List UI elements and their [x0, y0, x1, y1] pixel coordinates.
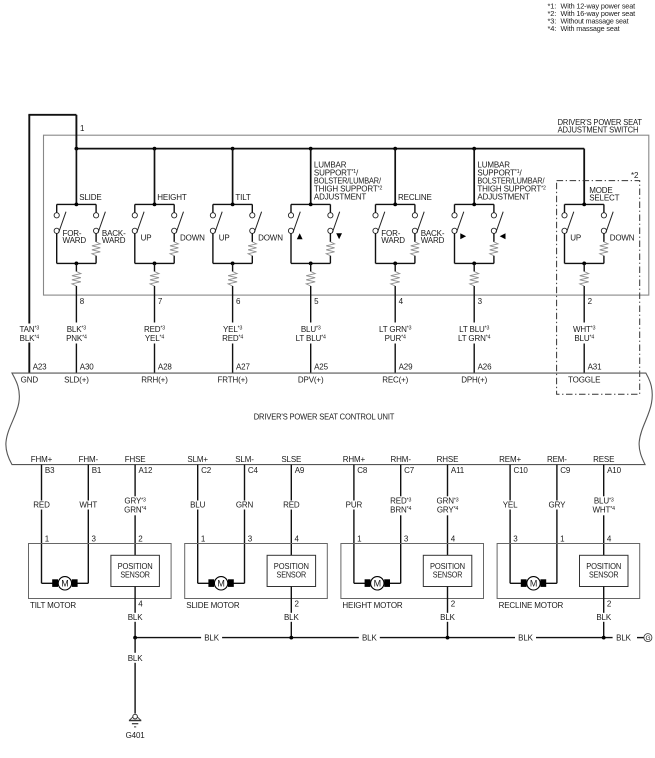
- svg-text:*4:: *4:: [548, 24, 557, 33]
- sensor pin 2: [295, 600, 300, 609]
- wire pin 5 to connector A25: [310, 286, 312, 373]
- label BLK: [128, 654, 143, 663]
- junction node col 5 on bus: [309, 147, 313, 151]
- pin 1 label: [80, 124, 85, 133]
- svg-text:WARD: WARD: [63, 236, 87, 245]
- svg-text:SLIDE: SLIDE: [79, 193, 101, 202]
- junction node col 6 on bus: [231, 147, 235, 151]
- wire colour label: [498, 501, 522, 510]
- label RECLINE MOTOR: [499, 601, 564, 610]
- wire FHM+ (B3): [41, 465, 43, 584]
- label BLK: [204, 633, 219, 642]
- connector id C4: [248, 466, 259, 475]
- ground terminal G: [644, 634, 652, 643]
- svg-text:2: 2: [607, 600, 612, 609]
- label FHM+: [31, 455, 53, 464]
- junction tilt sensor on ground bus: [133, 636, 137, 640]
- svg-text:A25: A25: [314, 362, 328, 371]
- connector id A12: [139, 466, 153, 475]
- wire colour label: [342, 501, 366, 510]
- svg-text:SLSE: SLSE: [281, 455, 301, 464]
- svg-text:6: 6: [236, 297, 241, 306]
- svg-text:A10: A10: [607, 466, 621, 475]
- resistor in 6 right branch: [248, 242, 256, 256]
- wire bus to switch 6: [232, 149, 234, 205]
- svg-text:G401: G401: [126, 731, 146, 740]
- svg-text:RED: RED: [33, 501, 50, 510]
- svg-text:M: M: [374, 579, 381, 589]
- wire colour label: [233, 501, 257, 510]
- svg-text:UP: UP: [141, 234, 152, 243]
- svg-text:UP: UP: [219, 234, 230, 243]
- driver's power seat adjustment switch box: [44, 135, 649, 295]
- label RHSE: [437, 455, 459, 464]
- wire RHSE (A11): [447, 465, 449, 556]
- wire: A23/GND feed to switch pin 1: [28, 115, 76, 373]
- svg-text:TILT MOTOR: TILT MOTOR: [30, 601, 76, 610]
- wire bus to switch 8: [75, 149, 77, 205]
- sensor pin 4: [138, 600, 143, 609]
- pin 1: [560, 535, 565, 544]
- note list (seat variants): [548, 2, 637, 33]
- wire sensor to ground bus: [603, 587, 605, 638]
- svg-text:C4: C4: [248, 466, 259, 475]
- wire switch 3 to resistor: [473, 263, 475, 271]
- svg-text:A28: A28: [158, 362, 172, 371]
- svg-text:SELECT: SELECT: [589, 194, 619, 203]
- height motor box: [341, 544, 484, 599]
- svg-text:1: 1: [45, 535, 50, 544]
- wire pin 7 to connector A28: [154, 286, 156, 373]
- svg-text:SENSOR: SENSOR: [433, 571, 463, 580]
- wire label RED*3/YEL*4: [144, 325, 165, 343]
- switch group pin 5: [288, 203, 339, 266]
- label BLK: [362, 633, 377, 642]
- pin 4: [295, 535, 300, 544]
- switch group pin 3: [452, 203, 503, 266]
- wire SLM+ (C2): [197, 465, 199, 584]
- svg-text:SENSOR: SENSOR: [277, 571, 307, 580]
- motor M of SLIDE MOTOR: [198, 577, 245, 590]
- wire FHSE (A12): [134, 465, 136, 556]
- svg-text:*2: *2: [631, 171, 639, 180]
- control unit terminal label TOGGLE: [568, 376, 600, 385]
- ground G401: [129, 714, 141, 727]
- svg-text:4: 4: [138, 600, 143, 609]
- wire pin 4 to connector A29: [394, 286, 396, 373]
- svg-text:2: 2: [451, 600, 456, 609]
- series resistor col 7: [150, 272, 159, 287]
- junction node col 3 on bus: [472, 147, 476, 151]
- label DRIVER'S POWER SEAT CONTROL UNIT: [254, 412, 395, 421]
- pin number 4: [399, 297, 404, 306]
- wire label YEL*3/RED*4: [222, 325, 243, 343]
- label DOWN: [180, 234, 205, 243]
- svg-text:TOGGLE: TOGGLE: [568, 376, 600, 385]
- sensor pin 2: [451, 600, 456, 609]
- svg-text:REC(+): REC(+): [382, 376, 408, 385]
- wire RESE (A10): [603, 465, 605, 556]
- resistor in 4 right branch: [411, 242, 419, 256]
- connector label A29: [399, 362, 413, 371]
- svg-text:RRH(+): RRH(+): [141, 376, 168, 385]
- junction node col 4 on bus: [393, 147, 397, 151]
- wire FHM- (B1): [87, 465, 89, 584]
- svg-text:GND: GND: [21, 376, 39, 385]
- wire REM- (C9): [556, 465, 558, 584]
- svg-text:RESE: RESE: [593, 455, 614, 464]
- svg-text:3: 3: [513, 535, 518, 544]
- svg-text:G: G: [645, 635, 650, 642]
- wire SLSE (A9): [290, 465, 292, 556]
- svg-text:B3: B3: [45, 466, 55, 475]
- resistor in 3 right branch: [490, 242, 498, 256]
- svg-text:RED*3: RED*3: [144, 325, 165, 334]
- pin 3: [92, 535, 97, 544]
- label RHM+: [343, 455, 366, 464]
- wire colour label: [545, 501, 569, 510]
- svg-text:LT BLU*3: LT BLU*3: [459, 325, 489, 334]
- wire label BLK: [593, 613, 615, 622]
- label UP: [141, 234, 152, 243]
- svg-text:BLK*3: BLK*3: [67, 325, 87, 334]
- label HEIGHT: [157, 193, 187, 202]
- svg-text:A27: A27: [236, 362, 250, 371]
- wire sensor to ground bus: [134, 587, 136, 638]
- pin 4: [451, 535, 456, 544]
- pin number 8: [80, 297, 85, 306]
- control unit terminal label SLD(+): [64, 376, 89, 385]
- svg-text:PNK*4: PNK*4: [66, 334, 87, 343]
- pin 1: [357, 535, 362, 544]
- wire colour label: [279, 501, 303, 510]
- switch group pin 2: [562, 203, 613, 266]
- position sensor of HEIGHT MOTOR: [423, 555, 472, 586]
- wire switch 8 to resistor: [75, 263, 77, 271]
- svg-text:DOWN: DOWN: [258, 234, 283, 243]
- svg-text:WARD: WARD: [421, 236, 445, 245]
- label BACK- WARD: [102, 229, 126, 245]
- wire label TAN*3/BLK*4 (GND wire): [16, 324, 42, 343]
- connector id A11: [451, 466, 465, 475]
- svg-text:TILT: TILT: [235, 193, 251, 202]
- wire colour label: [386, 496, 416, 515]
- slide motor box: [185, 544, 328, 599]
- svg-text:BLK: BLK: [128, 654, 143, 663]
- label FHM-: [79, 455, 99, 464]
- series resistor col 6: [228, 272, 237, 287]
- svg-text:8: 8: [80, 297, 85, 306]
- label FHSE: [125, 455, 146, 464]
- wire label BLK: [280, 613, 302, 622]
- ground bus wire (BLK): [135, 633, 644, 643]
- svg-text:A29: A29: [399, 362, 413, 371]
- svg-text:ADJUSTMENT: ADJUSTMENT: [314, 193, 367, 202]
- svg-text:5: 5: [314, 297, 319, 306]
- svg-text:3: 3: [404, 535, 409, 544]
- junction slide sensor on ground bus: [289, 636, 293, 640]
- svg-text:A9: A9: [295, 466, 305, 475]
- wire label BLK: [124, 613, 146, 622]
- wire switch 6 to resistor: [232, 263, 234, 271]
- svg-text:DRIVER'S POWER SEAT CONTROL UN: DRIVER'S POWER SEAT CONTROL UNIT: [254, 412, 395, 421]
- wire pin 2 to connector A31: [583, 286, 585, 373]
- pin number 6: [236, 297, 241, 306]
- svg-text:YEL*3: YEL*3: [223, 325, 243, 334]
- label SLM-: [235, 455, 254, 464]
- series resistor col 2: [580, 272, 589, 287]
- svg-text:2: 2: [295, 600, 300, 609]
- wire label BLU*3/LT BLU*4: [296, 325, 326, 343]
- svg-text:LT GRN*3: LT GRN*3: [379, 325, 412, 334]
- svg-text:3: 3: [478, 297, 483, 306]
- svg-text:WHT: WHT: [79, 501, 97, 510]
- label SLM+: [187, 455, 208, 464]
- wire ground bus to G401: [125, 638, 146, 714]
- svg-text:SLIDE MOTOR: SLIDE MOTOR: [186, 601, 240, 610]
- connector id A9: [295, 466, 305, 475]
- svg-text:C8: C8: [357, 466, 368, 475]
- wire pin 8 to connector A30: [75, 286, 77, 373]
- wire RHM+ (C8): [353, 465, 355, 584]
- pin 3: [404, 535, 409, 544]
- driver's power seat control unit outline (torn edges): [6, 373, 652, 465]
- svg-text:BLK: BLK: [284, 613, 299, 622]
- svg-text:BLK: BLK: [440, 613, 455, 622]
- label: DRIVER'S POWER SEAT ADJUSTMENT SWITCH: [558, 118, 642, 134]
- svg-text:BLU*3: BLU*3: [301, 325, 321, 334]
- svg-text:BLU: BLU: [190, 501, 205, 510]
- control unit terminal label DPH(+): [461, 376, 487, 385]
- connector label A27: [236, 362, 250, 371]
- svg-text:REM-: REM-: [547, 455, 567, 464]
- label FOR- WARD: [381, 229, 405, 245]
- svg-text:DOWN: DOWN: [180, 234, 205, 243]
- label *2: [631, 171, 639, 180]
- wire sensor to ground bus: [290, 587, 292, 638]
- svg-text:PUR: PUR: [346, 501, 363, 510]
- switch group pin 6: [210, 203, 261, 266]
- recline motor box: [497, 544, 640, 599]
- svg-text:RED*4: RED*4: [222, 334, 243, 343]
- series resistor col 5: [306, 272, 315, 287]
- svg-text:2: 2: [138, 535, 143, 544]
- control unit terminal label DPV(+): [298, 376, 324, 385]
- wire colour label: [76, 501, 100, 510]
- wire bus to switch 3: [473, 149, 475, 205]
- svg-text:1: 1: [560, 535, 565, 544]
- svg-text:3: 3: [92, 535, 97, 544]
- wire colour label: [120, 496, 150, 515]
- svg-text:LT BLU*4: LT BLU*4: [296, 334, 326, 343]
- svg-text:WARD: WARD: [381, 236, 405, 245]
- svg-text:A23: A23: [33, 362, 47, 371]
- svg-text:FHSE: FHSE: [125, 455, 146, 464]
- series resistor col 3: [470, 272, 479, 287]
- control unit terminal label FRTH(+): [218, 376, 249, 385]
- label ▲: [297, 233, 303, 239]
- resistor in 2 right branch: [600, 242, 608, 256]
- svg-text:RED: RED: [283, 501, 300, 510]
- svg-text:DPV(+): DPV(+): [298, 376, 324, 385]
- wire colour label: [30, 501, 54, 510]
- connector id C8: [357, 466, 368, 475]
- label HEIGHT MOTOR: [342, 601, 403, 610]
- wire sensor to ground bus: [447, 587, 449, 638]
- svg-text:YEL: YEL: [503, 501, 518, 510]
- wire RHM- (C7): [400, 465, 402, 584]
- label G401: [126, 731, 146, 740]
- motor M of RECLINE MOTOR: [510, 577, 557, 590]
- svg-text:A12: A12: [139, 466, 153, 475]
- junction node col 7 on bus: [153, 147, 157, 151]
- label FOR- WARD: [63, 229, 87, 245]
- label REM-: [547, 455, 567, 464]
- position sensor of RECLINE MOTOR: [580, 555, 629, 586]
- position sensor of TILT MOTOR: [111, 555, 159, 586]
- svg-text:SENSOR: SENSOR: [120, 571, 150, 580]
- pin number 7: [158, 297, 163, 306]
- wire colour label: [433, 496, 463, 515]
- switch group pin 8: [54, 203, 105, 266]
- svg-text:1: 1: [357, 535, 362, 544]
- svg-text:RECLINE MOTOR: RECLINE MOTOR: [499, 601, 564, 610]
- junction recline sensor on ground bus: [602, 636, 606, 640]
- label UP: [219, 234, 230, 243]
- svg-text:RHSE: RHSE: [437, 455, 459, 464]
- svg-text:A26: A26: [478, 362, 492, 371]
- connector id C9: [560, 466, 571, 475]
- label DOWN: [258, 234, 283, 243]
- label SLSE: [281, 455, 301, 464]
- label ▶: [460, 233, 466, 239]
- svg-text:BLU*4: BLU*4: [574, 334, 594, 343]
- svg-text:C9: C9: [560, 466, 571, 475]
- wire label LT GRN*3/PUR*4: [379, 325, 412, 343]
- svg-text:LT GRN*4: LT GRN*4: [458, 334, 491, 343]
- svg-text:FHM-: FHM-: [79, 455, 99, 464]
- junction node col 8 on bus: [75, 147, 79, 151]
- wire switch 4 to resistor: [394, 263, 396, 271]
- svg-text:1: 1: [201, 535, 206, 544]
- label ▼: [336, 233, 342, 239]
- wire colour label: [589, 496, 619, 515]
- label REM+: [499, 455, 521, 464]
- svg-text:SENSOR: SENSOR: [589, 571, 619, 580]
- svg-text:7: 7: [158, 297, 163, 306]
- label UP: [570, 234, 581, 243]
- position sensor of SLIDE MOTOR: [267, 555, 316, 586]
- svg-text:C2: C2: [201, 466, 212, 475]
- connector label A31: [588, 362, 602, 371]
- svg-text:A31: A31: [588, 362, 602, 371]
- svg-text:BLK: BLK: [616, 633, 631, 642]
- wire bus to switch 5: [310, 149, 312, 205]
- wire pin 3 to connector A26: [473, 286, 475, 373]
- svg-text:1: 1: [80, 124, 85, 133]
- motor M of TILT MOTOR: [42, 577, 89, 590]
- svg-text:A30: A30: [80, 362, 94, 371]
- pin number 2: [588, 297, 593, 306]
- junction height sensor on ground bus: [446, 636, 450, 640]
- motor M of HEIGHT MOTOR: [354, 577, 401, 590]
- svg-text:UP: UP: [570, 234, 581, 243]
- svg-text:4: 4: [607, 535, 612, 544]
- svg-text:RECLINE: RECLINE: [398, 193, 432, 202]
- svg-text:2: 2: [588, 297, 593, 306]
- sensor pin 2: [607, 600, 612, 609]
- svg-text:BLK: BLK: [362, 633, 377, 642]
- wire bus to switch 7: [154, 149, 156, 205]
- connector id C7: [404, 466, 415, 475]
- resistor in 8 right branch: [92, 242, 100, 256]
- svg-text:BLK: BLK: [596, 613, 611, 622]
- svg-text:WARD: WARD: [102, 236, 126, 245]
- label MODE SELECT: [589, 186, 619, 203]
- svg-text:REM+: REM+: [499, 455, 521, 464]
- wire REM+ (C10): [509, 465, 511, 584]
- wire label WHT*3/BLU*4: [573, 325, 596, 343]
- svg-text:4: 4: [295, 535, 300, 544]
- bus wire across switch columns: [76, 149, 584, 205]
- svg-text:HEIGHT MOTOR: HEIGHT MOTOR: [342, 601, 403, 610]
- svg-text:FHM+: FHM+: [31, 455, 53, 464]
- svg-text:SLM+: SLM+: [187, 455, 208, 464]
- svg-text:PUR*4: PUR*4: [385, 334, 406, 343]
- pin number 5: [314, 297, 319, 306]
- wire switch 7 to resistor: [154, 263, 156, 271]
- svg-text:YEL*4: YEL*4: [145, 334, 165, 343]
- pin 1: [45, 535, 50, 544]
- control unit terminal label GND: [21, 376, 39, 385]
- connector id C2: [201, 466, 212, 475]
- label SLIDE: [79, 193, 101, 202]
- connector label A30: [80, 362, 94, 371]
- control unit terminal label REC(+): [382, 376, 408, 385]
- connector id C10: [514, 466, 529, 475]
- label LUMBAR SUPPORT/BOLSTER/LUMBAR/THIGH SUPPORT ADJUSTMENT: [314, 160, 383, 201]
- svg-text:C7: C7: [404, 466, 415, 475]
- pin number 3: [478, 297, 483, 306]
- svg-text:SLD(+): SLD(+): [64, 376, 89, 385]
- svg-text:ADJUSTMENT SWITCH: ADJUSTMENT SWITCH: [558, 126, 639, 135]
- wire pin 6 to connector A27: [232, 286, 234, 373]
- svg-text:With massage seat: With massage seat: [561, 24, 621, 33]
- option box *2 (16-way) dash-dot: [557, 181, 640, 395]
- connector id A10: [607, 466, 621, 475]
- resistor in 5 right branch: [326, 242, 334, 256]
- label TILT MOTOR: [30, 601, 76, 610]
- connector label A26: [478, 362, 492, 371]
- switch group pin 7: [132, 203, 183, 266]
- connector id B3: [45, 466, 55, 475]
- resistor in 7 right branch: [170, 242, 178, 256]
- svg-text:GRY: GRY: [549, 501, 567, 510]
- svg-text:ADJUSTMENT: ADJUSTMENT: [477, 193, 530, 202]
- pin 1: [201, 535, 206, 544]
- svg-text:A11: A11: [451, 466, 465, 475]
- wire SLM- (C4): [244, 465, 246, 584]
- label RECLINE: [398, 193, 432, 202]
- wire switch 5 to resistor: [310, 263, 312, 271]
- svg-text:RHM+: RHM+: [343, 455, 366, 464]
- wire bus to switch 4: [394, 149, 396, 205]
- svg-text:M: M: [530, 579, 537, 589]
- pin 3: [248, 535, 253, 544]
- label RHM-: [391, 455, 412, 464]
- svg-text:GRN: GRN: [236, 501, 254, 510]
- svg-text:C10: C10: [514, 466, 529, 475]
